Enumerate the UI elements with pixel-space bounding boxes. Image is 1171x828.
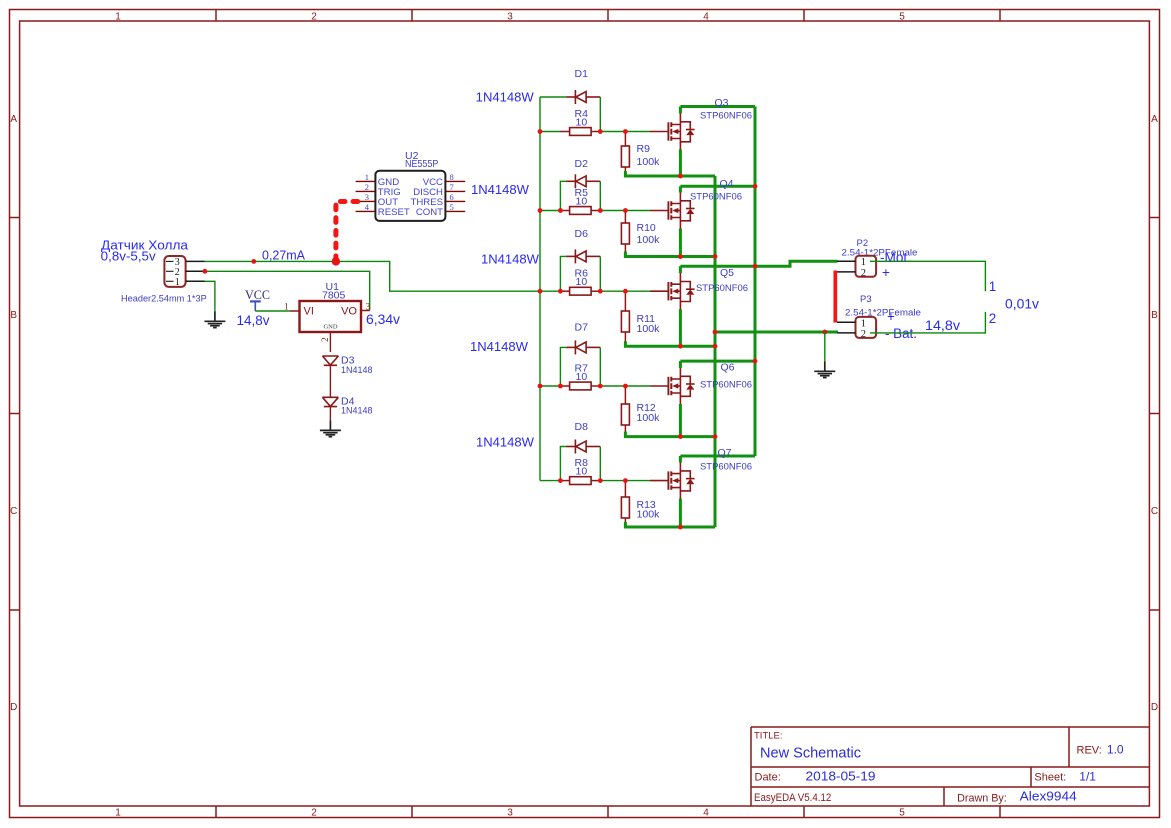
wire D7 left stub xyxy=(560,347,566,386)
svg-text:VO: VO xyxy=(341,306,357,318)
svg-text:7805: 7805 xyxy=(322,289,346,301)
wire D1 left xyxy=(540,96,566,98)
svg-text:7: 7 xyxy=(450,182,454,192)
svg-text:1: 1 xyxy=(989,279,997,294)
bus drain row 3 xyxy=(680,261,837,266)
svg-text:3: 3 xyxy=(365,192,369,202)
junction dot pin3 wire xyxy=(251,259,256,264)
U1 pin3 lead xyxy=(361,310,370,312)
junction dots row 5 xyxy=(558,478,563,483)
wire D4 to ground xyxy=(329,407,331,421)
svg-text:0,27mA: 0,27mA xyxy=(262,248,305,263)
svg-text:3: 3 xyxy=(507,808,513,819)
wire P2 pin1 to right net 1 xyxy=(870,261,986,291)
svg-text:10: 10 xyxy=(576,276,588,288)
svg-text:2: 2 xyxy=(311,12,317,23)
bus drain row 2 xyxy=(680,185,755,188)
svg-text:VCC: VCC xyxy=(245,288,270,302)
transistor Q6 STP60NF06 xyxy=(650,367,695,405)
ground near P3 xyxy=(814,361,835,377)
wire red P2 pin2 to P3 pin1 xyxy=(833,271,837,323)
svg-text:+: + xyxy=(882,265,890,280)
svg-text:CONT: CONT xyxy=(416,207,443,218)
svg-text:10: 10 xyxy=(576,371,588,383)
svg-text:2: 2 xyxy=(989,311,997,326)
junction dots row 3 xyxy=(538,289,543,294)
svg-text:VI: VI xyxy=(304,306,314,318)
svg-text:D2: D2 xyxy=(575,158,589,170)
bus drain row 1 xyxy=(680,105,755,108)
transistor Q3 STP60NF06 xyxy=(650,113,695,151)
svg-text:100k: 100k xyxy=(637,323,661,335)
svg-text:14,8v: 14,8v xyxy=(237,313,270,328)
svg-text:TITLE:: TITLE: xyxy=(754,731,783,742)
svg-text:STP60NF06: STP60NF06 xyxy=(696,283,748,294)
wire net OUT to row3 xyxy=(205,261,541,291)
wire gate row 5 xyxy=(540,480,561,482)
svg-text:D8: D8 xyxy=(575,421,589,433)
junction dot gnd tap xyxy=(822,330,827,335)
wire D6 left stub xyxy=(560,256,566,291)
U2 pin 4 RESET xyxy=(356,210,376,212)
wire drain nub Q5 xyxy=(679,266,682,273)
svg-text:3: 3 xyxy=(507,12,513,23)
svg-text:10: 10 xyxy=(576,195,588,207)
svg-text:STP60NF06: STP60NF06 xyxy=(700,111,752,122)
highlighted wire from U2 OUT (red dotted) xyxy=(336,202,358,262)
bus vertical source net x=715 xyxy=(714,176,717,527)
U1 pin1 lead xyxy=(290,310,300,312)
wire gate row 2 xyxy=(540,210,561,212)
svg-text:2: 2 xyxy=(320,337,330,342)
svg-text:100k: 100k xyxy=(637,234,661,246)
wire drain nub Q6 xyxy=(679,361,682,368)
svg-text:2: 2 xyxy=(861,268,866,279)
junction dots row 4 xyxy=(538,384,543,389)
svg-text:STP60NF06: STP60NF06 xyxy=(700,379,752,390)
svg-text:B: B xyxy=(10,310,17,321)
svg-text:D: D xyxy=(1151,702,1158,713)
wire drain nub Q7 xyxy=(679,456,682,463)
wire D8 left stub xyxy=(560,447,566,481)
svg-text:STP60NF06: STP60NF06 xyxy=(700,462,752,473)
diode D8 1N4148W xyxy=(566,440,600,454)
U2 pin 3 OUT xyxy=(356,200,376,202)
wire P2 pin1 lead xyxy=(837,260,856,262)
svg-text:1: 1 xyxy=(115,12,121,23)
ground at D4 xyxy=(320,420,341,436)
diode D1 1N4148W xyxy=(566,90,600,104)
bus source row 1 xyxy=(624,171,715,176)
svg-text:-Mot.: -Mot. xyxy=(880,250,911,265)
junction dot bat bus xyxy=(713,330,718,335)
svg-text:D: D xyxy=(10,702,17,713)
svg-text:Alex9944: Alex9944 xyxy=(1020,790,1077,804)
title block xyxy=(751,727,1149,806)
transistor Q4 STP60NF06 xyxy=(650,192,695,230)
wire P2 pin2 lead xyxy=(837,271,856,273)
svg-text:1: 1 xyxy=(861,318,866,329)
svg-text:5: 5 xyxy=(450,202,454,212)
svg-text:Q7: Q7 xyxy=(718,447,732,459)
diode D6 1N4148W xyxy=(566,249,600,263)
svg-text:1: 1 xyxy=(284,301,289,311)
svg-text:C: C xyxy=(1151,506,1158,517)
svg-text:1: 1 xyxy=(175,277,180,288)
wire D2 right stub xyxy=(599,181,601,210)
svg-text:RESET: RESET xyxy=(378,207,410,218)
wire P3 pin2 to right net 2 xyxy=(870,312,986,333)
svg-text:Q4: Q4 xyxy=(720,178,734,190)
svg-text:14,8v: 14,8v xyxy=(925,318,960,333)
wire gate row 4 xyxy=(540,385,561,387)
resistor R9 100k xyxy=(624,132,626,147)
svg-text:Q5: Q5 xyxy=(720,267,734,279)
svg-text:2: 2 xyxy=(311,808,317,819)
U2 pin 2 TRIG xyxy=(356,190,376,192)
wire D1 right stub xyxy=(599,97,601,132)
svg-text:A: A xyxy=(10,114,17,125)
svg-text:1N4148W: 1N4148W xyxy=(481,252,540,267)
wire source nub Q7 xyxy=(679,499,682,527)
svg-text:1: 1 xyxy=(115,808,121,819)
svg-text:D7: D7 xyxy=(575,322,589,334)
U2 pin 8 VCC xyxy=(445,180,465,182)
svg-text:8: 8 xyxy=(450,172,454,182)
resistor R13 100k xyxy=(624,481,626,497)
wire source nub Q6 xyxy=(679,404,682,437)
svg-text:+: + xyxy=(887,309,895,324)
svg-text:4: 4 xyxy=(703,808,709,819)
svg-text:New Schematic: New Schematic xyxy=(760,746,861,762)
wire source nub Q5 xyxy=(679,309,682,346)
U2 pin 5 CONT xyxy=(445,210,465,212)
svg-text:Drawn By:: Drawn By: xyxy=(957,793,1007,805)
svg-text:B: B xyxy=(1151,310,1158,321)
svg-text:1N4148: 1N4148 xyxy=(341,365,373,376)
svg-text:1/1: 1/1 xyxy=(1079,770,1096,784)
svg-text:6,34v: 6,34v xyxy=(366,312,400,327)
junction dot pin2 wire xyxy=(203,269,208,274)
resistor R11 100k xyxy=(624,291,626,311)
bus drain row 4 xyxy=(680,360,755,363)
bus drain row 5 xyxy=(680,455,755,458)
svg-text:100k: 100k xyxy=(637,412,661,424)
svg-text:100k: 100k xyxy=(637,156,661,168)
wire VCC to U1 VI xyxy=(255,310,289,312)
bus vertical drain net x=755 xyxy=(754,107,757,457)
svg-text:STP60NF06: STP60NF06 xyxy=(690,192,742,203)
transistor Q7 STP60NF06 xyxy=(650,462,695,500)
svg-text:R10: R10 xyxy=(637,222,656,234)
wire pin2 to U1 VO xyxy=(205,271,370,310)
wire source nub Q3 xyxy=(679,150,682,177)
resistor R12 100k xyxy=(624,386,626,404)
svg-text:A: A xyxy=(1151,114,1158,125)
svg-text:3: 3 xyxy=(366,301,371,311)
svg-text:Date:: Date: xyxy=(755,772,781,784)
svg-text:4: 4 xyxy=(703,12,709,23)
svg-text:10: 10 xyxy=(576,465,588,477)
svg-text:1N4148W: 1N4148W xyxy=(470,339,529,354)
wire gate row 1 xyxy=(540,131,561,133)
svg-text:100k: 100k xyxy=(637,509,661,521)
svg-text:R9: R9 xyxy=(637,143,651,155)
U2 pin 7 DISCH xyxy=(445,190,465,192)
wire drain nub Q3 xyxy=(679,107,682,114)
wire gate row 3 xyxy=(540,290,561,292)
svg-text:Header2.54mm 1*3P: Header2.54mm 1*3P xyxy=(121,293,207,304)
wire D2 left stub xyxy=(560,181,566,210)
junction dot dotted wire xyxy=(332,257,340,265)
bus source row 4 xyxy=(624,432,715,437)
junction dots row 2 xyxy=(538,208,543,213)
bus source row 2 xyxy=(624,252,715,257)
svg-text:1N4148W: 1N4148W xyxy=(476,435,535,450)
U1 pin2 lead xyxy=(329,332,331,352)
svg-text:1.0: 1.0 xyxy=(1107,742,1124,756)
diode D3 xyxy=(322,356,338,365)
diode D4 xyxy=(322,397,338,406)
wire D3 to D4 xyxy=(329,365,331,397)
junction dots row 1 xyxy=(538,129,543,134)
diode D7 1N4148W xyxy=(566,340,600,354)
wire main gate bus vertical x=540 xyxy=(539,97,541,481)
bus battery minus y=332 xyxy=(715,331,838,334)
svg-text:2: 2 xyxy=(861,329,866,340)
resistor R10 100k xyxy=(624,211,626,224)
svg-text:Sheet:: Sheet: xyxy=(1034,772,1066,784)
svg-text:Q3: Q3 xyxy=(715,97,729,109)
wire D8 right stub xyxy=(599,447,601,481)
svg-text:C: C xyxy=(10,506,17,517)
svg-text:2: 2 xyxy=(365,182,369,192)
svg-text:1N4148W: 1N4148W xyxy=(476,90,535,105)
wire H1 pin2 lead xyxy=(186,270,205,272)
svg-text:NE555P: NE555P xyxy=(405,158,438,170)
bus source row 5 xyxy=(624,522,715,527)
ground at H1 pin1 xyxy=(204,311,225,327)
wire source nub Q4 xyxy=(679,229,682,257)
diode D2 1N4148W xyxy=(566,174,600,188)
U2 pin 6 THRES xyxy=(445,200,465,202)
bus source row 3 xyxy=(624,341,715,346)
svg-text:D1: D1 xyxy=(575,68,589,80)
svg-text:GND: GND xyxy=(323,323,337,330)
svg-text:REV:: REV: xyxy=(1077,744,1102,756)
svg-text:1: 1 xyxy=(365,172,369,182)
connector H1 Header2.54mm 1*3P xyxy=(164,256,185,287)
svg-text:2.54-1*2PFemale: 2.54-1*2PFemale xyxy=(845,307,921,317)
svg-text:P3: P3 xyxy=(860,294,872,305)
wire H1 pin3 lead xyxy=(186,260,205,262)
svg-text:10: 10 xyxy=(576,116,588,128)
wire drain nub Q4 xyxy=(679,186,682,192)
svg-text:EasyEDA V5.4.12: EasyEDA V5.4.12 xyxy=(754,792,831,804)
wire pin1 to ground xyxy=(205,281,215,311)
wire P3 pin2 lead xyxy=(837,332,856,334)
svg-text:5: 5 xyxy=(899,12,905,23)
wire P3 pin1 lead xyxy=(837,321,856,323)
U2 pin 1 GND xyxy=(356,180,376,182)
svg-text:5: 5 xyxy=(899,808,905,819)
svg-text:D6: D6 xyxy=(575,228,589,240)
wire D7 right stub xyxy=(599,347,601,386)
svg-text:Q6: Q6 xyxy=(721,362,735,374)
wire H1 pin1 lead xyxy=(186,280,205,282)
svg-text:1N4148: 1N4148 xyxy=(341,406,373,417)
svg-text:0,01v: 0,01v xyxy=(1005,297,1039,312)
wire D6 right stub xyxy=(599,256,601,291)
svg-text:2018-05-19: 2018-05-19 xyxy=(806,770,876,784)
svg-text:1: 1 xyxy=(861,257,866,268)
svg-text:0,8v-5,5v: 0,8v-5,5v xyxy=(101,249,157,264)
svg-text:1N4148W: 1N4148W xyxy=(471,182,530,197)
svg-text:6: 6 xyxy=(450,192,454,202)
transistor Q5 STP60NF06 xyxy=(650,272,695,310)
wire gnd tap down xyxy=(824,332,826,361)
